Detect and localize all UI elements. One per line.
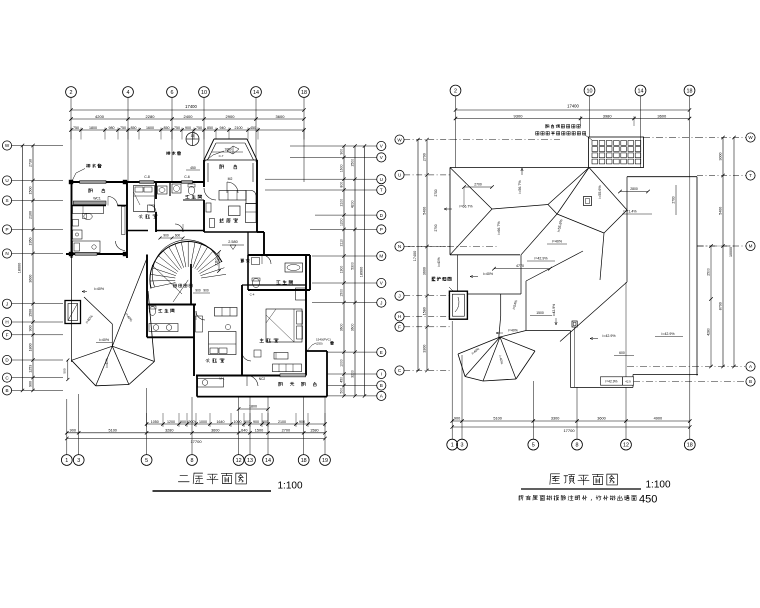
roof left grid circles [395,135,404,375]
roof boxed slope labels bottom [601,377,634,385]
svg-text:600: 600 [619,351,625,355]
roof mid ridge lines [548,205,627,281]
svg-text:i=42.9%: i=42.9% [534,257,548,261]
roof dim 1500/600 [530,311,634,356]
svg-text:900: 900 [203,289,209,293]
svg-text:5400: 5400 [423,207,427,215]
window C-8 top wall [140,175,155,183]
left plan left grid circles [2,141,11,395]
svg-text:5300: 5300 [351,262,355,270]
left plan top dim details [69,126,305,140]
svg-text:1800: 1800 [29,343,33,351]
svg-text:3600: 3600 [340,324,344,332]
svg-text:5400: 5400 [719,207,723,215]
svg-text:940: 940 [220,126,226,130]
svg-text:i=40%: i=40% [105,358,109,368]
svg-text:17700: 17700 [190,439,202,444]
svg-text:4280: 4280 [706,328,710,336]
svg-text:2.580: 2.580 [228,240,238,244]
svg-text:1000: 1000 [234,420,242,424]
study left wall boxes [73,220,83,240]
bath2 walls [248,255,310,290]
roof bottom grid leaders [452,321,690,439]
svg-text:2: 2 [454,88,457,94]
svg-text:2700: 2700 [423,153,427,161]
svg-text:i=40%: i=40% [552,240,563,244]
svg-text:1500: 1500 [29,187,33,195]
bath1 sink [158,186,168,194]
svg-text:750: 750 [196,126,202,130]
svg-text:900: 900 [454,417,460,421]
balcony door NC2 [247,376,265,387]
svg-text:900: 900 [185,126,191,130]
roof right dim col [719,136,725,368]
svg-text:N: N [5,251,8,256]
svg-text:18: 18 [301,458,307,464]
roof solar panel annotation [536,125,592,140]
roof center diagonal from solar to valley [521,168,589,255]
garage roof hub ridge [84,297,112,346]
svg-text:i=40%: i=40% [483,272,494,276]
label 卫生间 SW [159,309,174,313]
svg-text:2700: 2700 [474,183,482,187]
bay balcony label 阳台 [220,165,237,169]
left plan right dim column total 18900 [360,144,367,397]
left plan scale 1:100 [277,481,302,492]
svg-text:1253: 1253 [29,365,33,373]
svg-text:1500: 1500 [340,289,344,297]
svg-text:2790: 2790 [434,224,438,231]
svg-text:i=40%: i=40% [94,287,105,291]
svg-text:5: 5 [532,443,535,449]
stair label 门厅上空 [174,284,193,287]
svg-text:F: F [398,325,401,330]
svg-text:5100: 5100 [493,417,501,421]
svg-text:450: 450 [250,126,256,130]
roof dash-dot grid N [408,245,734,248]
level mark 2.580 [222,240,244,250]
bath2 toilet [252,278,260,288]
svg-text:17400: 17400 [413,251,417,262]
outer wall left [71,182,73,362]
svg-text:8: 8 [576,443,579,449]
bath2 door [262,255,271,264]
living sofa L [219,191,256,223]
left plan top dim segments [69,114,305,121]
roof right grid leaders [633,138,746,382]
svg-text:H: H [398,314,401,319]
left plan left dim column inner [29,144,35,392]
bedroom bottom wall y375.5 [196,375,306,377]
roof right dim inner 2500 [706,244,713,368]
label 次卧室 top [139,214,157,218]
svg-text:1800: 1800 [249,405,257,409]
door arcs misc [149,188,251,361]
svg-text:i=71.4%: i=71.4% [623,210,637,214]
svg-text:J: J [380,300,382,305]
svg-text:3600: 3600 [423,267,427,275]
svg-text:N: N [398,244,401,249]
left plan bottom grid leaders [67,388,325,455]
svg-text:3600: 3600 [276,114,286,119]
study wardrobe strip top [73,201,106,205]
svg-text:750: 750 [174,126,180,130]
svg-text:i=42.9%: i=42.9% [602,334,616,338]
study bottom window [75,253,97,256]
svg-text:(250): (250) [316,342,323,346]
svg-text:i=40%: i=40% [99,338,110,342]
bedroom2 top bed [134,186,155,212]
left plan bottom dim segments [65,428,327,434]
svg-text:1500: 1500 [29,309,33,317]
svg-text:1050: 1050 [151,420,159,424]
left plan right dim column detail [340,144,346,397]
bathroom SW fixtures [149,306,178,332]
svg-text:1580: 1580 [310,428,318,432]
roof chimney label 壁炉烟囱 [432,277,453,291]
svg-text:2500: 2500 [706,268,710,276]
master bedroom walls [242,255,306,376]
left plan left dim column total [18,144,25,392]
svg-text:1600: 1600 [146,126,154,130]
wall jog right x264 [257,232,264,255]
svg-text:1: 1 [451,443,454,449]
roof dim 2800/2700 NE [618,185,676,215]
roof dash-dot grid W [450,138,697,140]
svg-text:2100: 2100 [235,126,243,130]
svg-text:1:100: 1:100 [277,481,302,492]
label 主卧室 [260,338,278,342]
svg-text:10000: 10000 [729,247,733,257]
svg-text:2900: 2900 [226,114,236,119]
roof left grid leaders [404,140,450,371]
bath2 sink [252,258,260,265]
svg-text:500: 500 [63,368,67,373]
master tv stand [254,350,261,357]
bedroom2 nightstand [148,205,155,212]
study bed horizontal [73,241,101,253]
svg-text:4200: 4200 [351,200,355,208]
svg-text:4770: 4770 [516,264,524,268]
svg-text:WC1: WC1 [93,197,101,201]
svg-text:2730: 2730 [29,159,33,167]
roof small vent square center [584,197,592,206]
left plan right dim column mid [351,144,357,397]
curved stair treads [150,240,226,289]
inner dim 2110 [214,250,221,273]
svg-text:12: 12 [623,443,629,449]
svg-text:W: W [748,135,753,140]
svg-text:2700: 2700 [671,196,675,203]
hall dims 900 600 [159,234,185,240]
bath2 tub [285,263,303,272]
svg-text:900: 900 [29,325,33,331]
svg-text:19: 19 [322,458,328,464]
roof bottom grid circles [447,439,695,450]
svg-text:2700: 2700 [434,189,438,196]
svg-text:3980: 3980 [603,113,613,118]
stair outer wall left [146,255,148,306]
roof chimney box [449,291,467,319]
bedroom SW dresser [196,316,231,332]
svg-text:1500: 1500 [536,311,544,315]
living tv cabinet [206,203,215,228]
annotation PVC pipe SE [306,338,334,353]
svg-text:2100: 2100 [278,420,286,424]
svg-text:E: E [380,350,383,355]
svg-text:3600: 3600 [597,417,605,421]
study room bottom wall y254 [66,180,127,256]
svg-text:900: 900 [163,234,169,238]
label 卫生间 top [186,195,202,199]
left plan right grid leaders [265,146,377,396]
roof dim 4770 [492,264,552,271]
window C-6 top wall [182,175,193,183]
balcony counter sink [198,379,224,388]
svg-text:2500: 2500 [351,159,355,167]
svg-text:450: 450 [639,494,657,506]
svg-text:600: 600 [175,234,181,238]
roof pentagon turret outline [458,351,535,381]
svg-text:1: 1 [65,458,68,464]
svg-text:900: 900 [70,428,76,432]
balcony walls 阳光阳台 [197,351,327,397]
roof vent small right [572,321,577,387]
svg-text:750: 750 [120,126,126,130]
svg-text:750: 750 [73,126,79,130]
roof solar panel grid [589,137,644,168]
svg-text:900: 900 [253,420,259,424]
garage roof fan outline [72,291,155,386]
svg-text:F: F [6,333,9,338]
master bed [266,309,303,342]
left plan top dim total 17400 [69,104,305,112]
svg-text:J: J [398,293,400,298]
bedroom SW bed [209,332,237,355]
svg-text:2110: 2110 [214,258,218,265]
svg-text:18: 18 [301,90,307,96]
interior wall balcony/study y205 [72,205,128,207]
living room right wall [256,182,258,232]
svg-text:C-8: C-8 [144,175,150,179]
svg-text:18: 18 [687,443,693,449]
svg-text:i=40%: i=40% [437,257,441,267]
label C-4 small [219,293,254,381]
svg-text:T: T [380,188,383,193]
svg-text:9300: 9300 [514,113,524,118]
bathroom SW walls [147,305,194,377]
svg-text:12: 12 [236,458,242,464]
svg-text:3600: 3600 [29,275,33,283]
svg-text:1000: 1000 [340,359,344,367]
roof dim 2700 NW [434,183,494,232]
svg-text:i=40%: i=40% [508,329,518,333]
roof right dim total 10000 [729,136,736,368]
left plan left grid leaders [12,146,63,391]
svg-text:3200: 3200 [351,370,355,378]
svg-text:4900: 4900 [654,417,662,421]
roof top grid circles [450,85,695,96]
svg-text:3280: 3280 [165,428,173,432]
svg-text:5100: 5100 [108,428,116,432]
roof bottom dim total 17700 [451,425,692,433]
roof right grid circles [746,133,755,386]
label 起居室 [220,218,238,222]
svg-text:1900: 1900 [340,266,344,274]
roof vertical grid line 12 inner [625,282,627,377]
label 次卧室 SW [206,358,224,362]
svg-text:1200: 1200 [167,420,175,424]
svg-text:2: 2 [70,90,73,96]
svg-text:8700: 8700 [719,302,723,310]
svg-text:5: 5 [145,458,148,464]
svg-text:17400: 17400 [185,104,197,109]
svg-text:1800: 1800 [89,126,97,130]
svg-text:i=56.7%: i=56.7% [518,180,522,194]
svg-text:W: W [5,143,10,148]
garage roof dim 500 [63,359,70,382]
living door M2 [227,177,238,193]
svg-text:640: 640 [241,428,247,432]
interior wall x156 [155,182,157,232]
svg-text:4: 4 [127,90,130,96]
svg-text:S: S [5,198,8,203]
svg-text:6: 6 [171,90,174,96]
outer wall top [71,181,204,183]
svg-text:W: W [397,137,402,142]
svg-text:17700: 17700 [563,428,575,433]
roof top dim total 17400 [454,104,691,112]
roof NE block outline [627,177,697,376]
svg-text:3600: 3600 [211,428,219,432]
svg-text:10: 10 [587,88,593,94]
svg-text:M2: M2 [228,177,233,181]
svg-text:450: 450 [340,377,344,383]
roof top grid leaders [456,96,690,177]
svg-text:4200: 4200 [95,114,105,119]
garage roof slope labels [82,287,133,368]
svg-text:B: B [5,388,8,393]
label 阳光阳台 [279,382,317,386]
svg-text:980: 980 [109,126,115,130]
roof left dim col [423,138,429,372]
svg-text:900: 900 [340,149,344,155]
svg-text:1200: 1200 [340,218,344,226]
left plan title underline [153,490,272,492]
window strip master-balcony [280,374,306,377]
svg-text:1500: 1500 [255,428,263,432]
label 卫生间 SE [277,280,293,284]
svg-text:1000: 1000 [199,420,207,424]
bay dim 1660 [212,148,243,159]
svg-text:500: 500 [340,388,344,394]
bedroom SW sofa pair [215,308,238,317]
svg-text:1950: 1950 [29,238,33,246]
svg-text:P: P [380,227,383,232]
study right wardrobe strip [122,207,126,235]
svg-text:17400: 17400 [567,104,579,109]
dim 1800 inner [237,405,270,411]
svg-text:J: J [6,301,8,306]
svg-text:850: 850 [207,126,213,130]
svg-text:NC2: NC2 [259,377,266,381]
vent circle 15 symbol [186,133,199,146]
svg-text:10: 10 [201,90,207,96]
left plan right grid circles [377,141,386,400]
stair dim 900 900 [193,289,210,294]
svg-text:850: 850 [164,126,170,130]
stair right wall [190,264,192,305]
svg-text:8: 8 [191,458,194,464]
svg-text:2280: 2280 [146,114,156,119]
svg-text:C-7: C-7 [219,154,224,158]
roof title underline [521,488,641,490]
svg-text:M: M [379,254,383,259]
svg-text:3600: 3600 [657,113,667,118]
roof top dim segments [454,113,691,126]
roof scale 1:100 [645,480,670,491]
svg-text:3000: 3000 [719,153,723,161]
svg-text:18000: 18000 [18,263,22,274]
svg-text:800: 800 [340,182,344,188]
roof turret upper lines [499,251,583,337]
closet 更衣间 [241,232,250,262]
study door arc right [116,241,126,251]
roof title 屋顶平面图 [550,474,617,485]
svg-text:i=55.6%: i=55.6% [598,185,602,199]
svg-text:14: 14 [265,458,271,464]
NE annotation leader [204,151,224,162]
svg-text:900: 900 [180,420,186,424]
roof pentagon radials [458,337,535,381]
left plan title 二层平面图 [178,473,246,484]
svg-text:I: I [381,372,382,377]
roof drain note NE [166,151,200,170]
label 排水管 with leader [72,164,102,182]
corridor/stair top wall y232 [204,231,264,233]
svg-text:13: 13 [247,458,253,464]
svg-text:M: M [749,244,753,249]
roof dash-dot A line [627,366,745,368]
roof left dim total 17400 [413,138,420,372]
svg-text:14: 14 [253,90,259,96]
svg-text:2100: 2100 [340,199,344,207]
svg-text:C-4: C-4 [250,293,255,297]
study desk L [73,206,104,214]
chimney SW box [65,301,81,324]
bedroom SW walls [241,285,243,376]
svg-text:900: 900 [195,289,201,293]
bath1 inner wall [170,182,204,200]
svg-text:2800: 2800 [630,187,638,191]
svg-text:850: 850 [131,126,137,130]
bay window top walls [204,139,257,182]
svg-text:U: U [380,177,383,182]
master ac box [296,288,306,300]
svg-text:18900: 18900 [360,267,364,278]
roof note text [519,494,657,506]
svg-text:i=42.9%: i=42.9% [552,304,556,316]
svg-text:i=66.7%: i=66.7% [459,205,473,209]
bath1 washer [172,184,181,193]
svg-text:3600: 3600 [351,324,355,332]
left plan top grid leader lines [71,97,304,182]
svg-text:T: T [749,173,752,178]
svg-text:450: 450 [190,166,196,170]
svg-text:3300: 3300 [423,345,427,353]
NE window symbol [227,146,239,154]
left plan bottom grid circles [61,455,330,466]
